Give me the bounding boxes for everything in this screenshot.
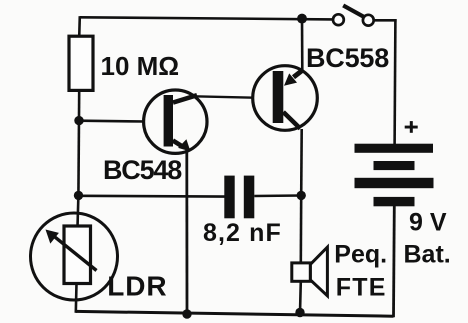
wire bottom rail: [76, 311, 394, 316]
svg-text:8,2 nF: 8,2 nF: [203, 219, 282, 247]
wire BC548 emitter down: [185, 150, 188, 314]
wire mid rail to capacitor: [78, 195, 225, 198]
wire junction to speaker: [299, 195, 302, 263]
switch S1 contact right: [363, 15, 374, 26]
photoresistor LDR arrow: [46, 230, 97, 271]
transistor Q1 BC548: [144, 90, 207, 153]
wire left rail middle: [77, 90, 80, 196]
battery B1 plate 4 short: [374, 197, 415, 206]
node capacitor junction: [297, 191, 306, 200]
node BC548 emitter bottom: [182, 309, 191, 318]
switch S1 lever: [343, 5, 364, 16]
wire right rail lower: [392, 206, 396, 318]
photoresistor LDR body: [64, 226, 91, 284]
svg-text:BC558: BC558: [306, 43, 389, 73]
svg-text:LDR: LDR: [107, 271, 167, 302]
wire switch to right rail: [374, 19, 397, 22]
switch S1 contact left: [333, 14, 344, 25]
battery B1 plate 2 short: [374, 161, 415, 170]
battery B1 plate 1 long: [355, 144, 434, 153]
label FTE: [336, 274, 387, 302]
wire LDR bottom: [75, 284, 78, 313]
label BC548: [103, 155, 182, 185]
node top emitter BC558: [297, 14, 307, 24]
label BC558: [306, 43, 389, 73]
svg-text:FTE: FTE: [336, 274, 387, 302]
capacitor C1 plate right: [244, 176, 255, 219]
wire speaker to bottom rail: [299, 281, 302, 313]
svg-text:10 MΩ: 10 MΩ: [101, 51, 180, 81]
photoresistor LDR circle: [31, 213, 118, 300]
label 9 V: [409, 208, 447, 236]
battery B1 plate 3 long: [355, 178, 434, 188]
label Peq.: [334, 241, 387, 269]
wire BC548 collector to BC558 base: [194, 96, 254, 97]
wire top rail: [80, 17, 333, 19]
resistor R1 10 MΩ: [69, 36, 93, 90]
label 8,2 nF: [203, 219, 282, 247]
wire capacitor to BC558 collector: [254, 194, 301, 197]
wire BC558 emitter up: [301, 19, 304, 71]
node base of BC548: [74, 116, 83, 125]
node mid rail left: [74, 191, 83, 200]
label + battery polarity: [405, 121, 418, 133]
speaker LS1 horn: [310, 247, 327, 296]
label 10 MΩ: [101, 51, 180, 81]
wire left rail upper: [78, 16, 81, 37]
svg-text:Peq.: Peq.: [334, 241, 387, 269]
wire right rail upper: [393, 19, 396, 145]
svg-text:9 V: 9 V: [409, 208, 447, 236]
label LDR: [107, 271, 167, 302]
label Bat.: [404, 240, 451, 268]
wire BC558 collector down: [300, 129, 303, 195]
wire BC548 base: [79, 119, 145, 122]
svg-text:BC548: BC548: [103, 155, 182, 185]
svg-text:Bat.: Bat.: [404, 240, 451, 268]
speaker LS1 box: [292, 263, 311, 281]
transistor Q2 BC558: [253, 66, 318, 131]
node speaker bottom: [295, 308, 304, 317]
wire LDR top: [76, 196, 80, 227]
capacitor C1 plate left: [224, 176, 234, 219]
